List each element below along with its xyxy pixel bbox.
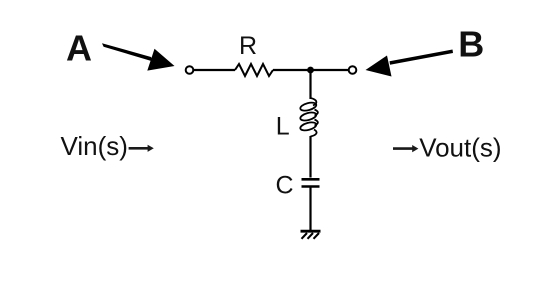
svg-text:B: B xyxy=(458,24,484,65)
wire: inductor to capacitor xyxy=(309,136,311,178)
terminal B (open circle) xyxy=(349,66,357,74)
terminal A (open circle) xyxy=(186,66,194,74)
wire: capacitor to ground xyxy=(309,188,311,231)
wire: junction to inductor L xyxy=(309,70,311,99)
arrow pointing to terminal A xyxy=(102,43,175,70)
svg-text:R: R xyxy=(239,32,257,60)
resistor R xyxy=(235,64,273,76)
arrow after Vin(s) xyxy=(129,145,154,152)
svg-text:C: C xyxy=(276,172,294,200)
svg-text:Vin(s): Vin(s) xyxy=(61,131,128,161)
svg-text:Vout(s): Vout(s) xyxy=(419,133,501,163)
wire: terminal A to resistor R xyxy=(194,69,236,71)
inductor L (coil) xyxy=(299,98,317,137)
ground xyxy=(301,231,321,239)
capacitor C xyxy=(302,179,320,186)
wire: resistor to junction and to terminal B xyxy=(273,69,349,71)
arrow pointing to terminal B xyxy=(366,50,454,77)
junction node xyxy=(307,67,314,74)
svg-text:L: L xyxy=(276,112,290,140)
arrow before Vout(s) xyxy=(393,145,418,152)
svg-text:A: A xyxy=(66,28,92,69)
